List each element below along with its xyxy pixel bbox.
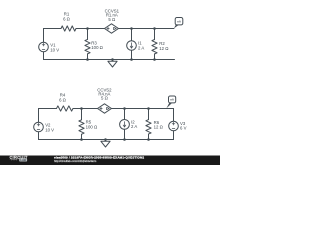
svg-text:10 V: 10 V [45,128,54,133]
voltage source V2 [34,122,44,132]
node junction dot R6 bottom [147,138,150,141]
label CCVS2 value [97,87,112,100]
op-amp CCVS2 dependent source diamond [98,104,112,113]
wire V3 branch [173,109,175,140]
node junction dot R5 top [80,107,83,110]
node junction dot I2 bottom [123,138,126,141]
node junction dot I2 top [123,107,126,110]
svg-text:12 Ω: 12 Ω [154,125,164,130]
node A junction dot [86,27,89,30]
op-amp CCVS1 dependent source diamond [105,24,119,33]
label V1 value [50,43,59,53]
resistor R1 [61,26,76,31]
resistor R3 [85,39,90,53]
svg-text:nA: nA [170,98,174,102]
node junction dot R3 bottom [86,58,89,61]
label CCVS1 value [105,8,120,22]
label R2 value [159,41,169,51]
node junction dot R6 top [147,107,150,110]
svg-text:nA: nA [177,19,181,23]
node junction dot I1 bottom [130,58,133,61]
svg-text:5 Ω: 5 Ω [108,17,116,22]
voltage source V1 [39,42,49,52]
footer watermark bar [0,156,220,166]
label R4 value [59,93,67,103]
ground circuit 1 [108,58,117,67]
wire V2 branch [38,109,40,140]
wire top rail of circuit 1 [44,28,175,30]
CircuitLab logo [10,154,28,162]
resistor R4 [57,106,73,111]
wire top rail of circuit 2 [39,108,174,110]
node junction dot R5 bottom [80,138,83,141]
wire R5 branch [81,109,83,140]
wire bottom rail of circuit 2 [39,139,174,141]
wire I2 branch [124,109,126,140]
label V2 value [45,123,54,133]
annotation callout circuit 2 [166,96,175,108]
label R6 value [154,120,164,130]
svg-text:100 Ω: 100 Ω [91,45,103,50]
wire bottom rail of circuit 1 [44,59,175,61]
svg-text:12 Ω: 12 Ω [159,46,169,51]
svg-text:http://circuitlab.com/c/32q5ah: http://circuitlab.com/c/32q5ahtw4arm [54,159,96,163]
node junction dot I1 top [130,27,133,30]
svg-text:6 Ω: 6 Ω [59,97,67,102]
wire V1 branch [43,29,45,60]
svg-text:6 V: 6 V [180,125,187,130]
label I2 value [131,120,137,130]
svg-text:10 V: 10 V [50,48,59,53]
wire I1 branch [131,29,133,60]
svg-text:6 Ω: 6 Ω [63,17,71,22]
ground circuit 2 [101,138,110,147]
annotation callout circuit 1 [174,18,183,29]
label R3 value [91,40,103,50]
current source I1 [127,41,137,51]
wire R6 branch [148,109,150,140]
resistor R6 [146,120,151,134]
label I1 value [138,41,144,51]
label V3 value [180,121,187,131]
label nA annotation 1 [177,19,181,23]
node junction dot R2 top [153,27,156,30]
label R1 value [63,12,71,22]
voltage source V3 [169,121,179,131]
label R5 value [86,120,98,130]
svg-text:100 Ω: 100 Ω [86,124,98,129]
footer credit text [54,156,144,163]
resistor R5 [79,120,84,134]
svg-text:LAB: LAB [20,158,26,162]
node junction dot R2 bottom [153,58,156,61]
svg-text:2 A: 2 A [138,45,144,50]
resistor R2 [152,40,157,54]
svg-text:2 A: 2 A [131,124,137,129]
label nA annotation 2 [170,98,174,102]
svg-text:5 Ω: 5 Ω [101,95,109,100]
wire R2 branch [154,29,156,60]
current source I2 [120,120,130,130]
wire R3 branch [87,29,89,60]
